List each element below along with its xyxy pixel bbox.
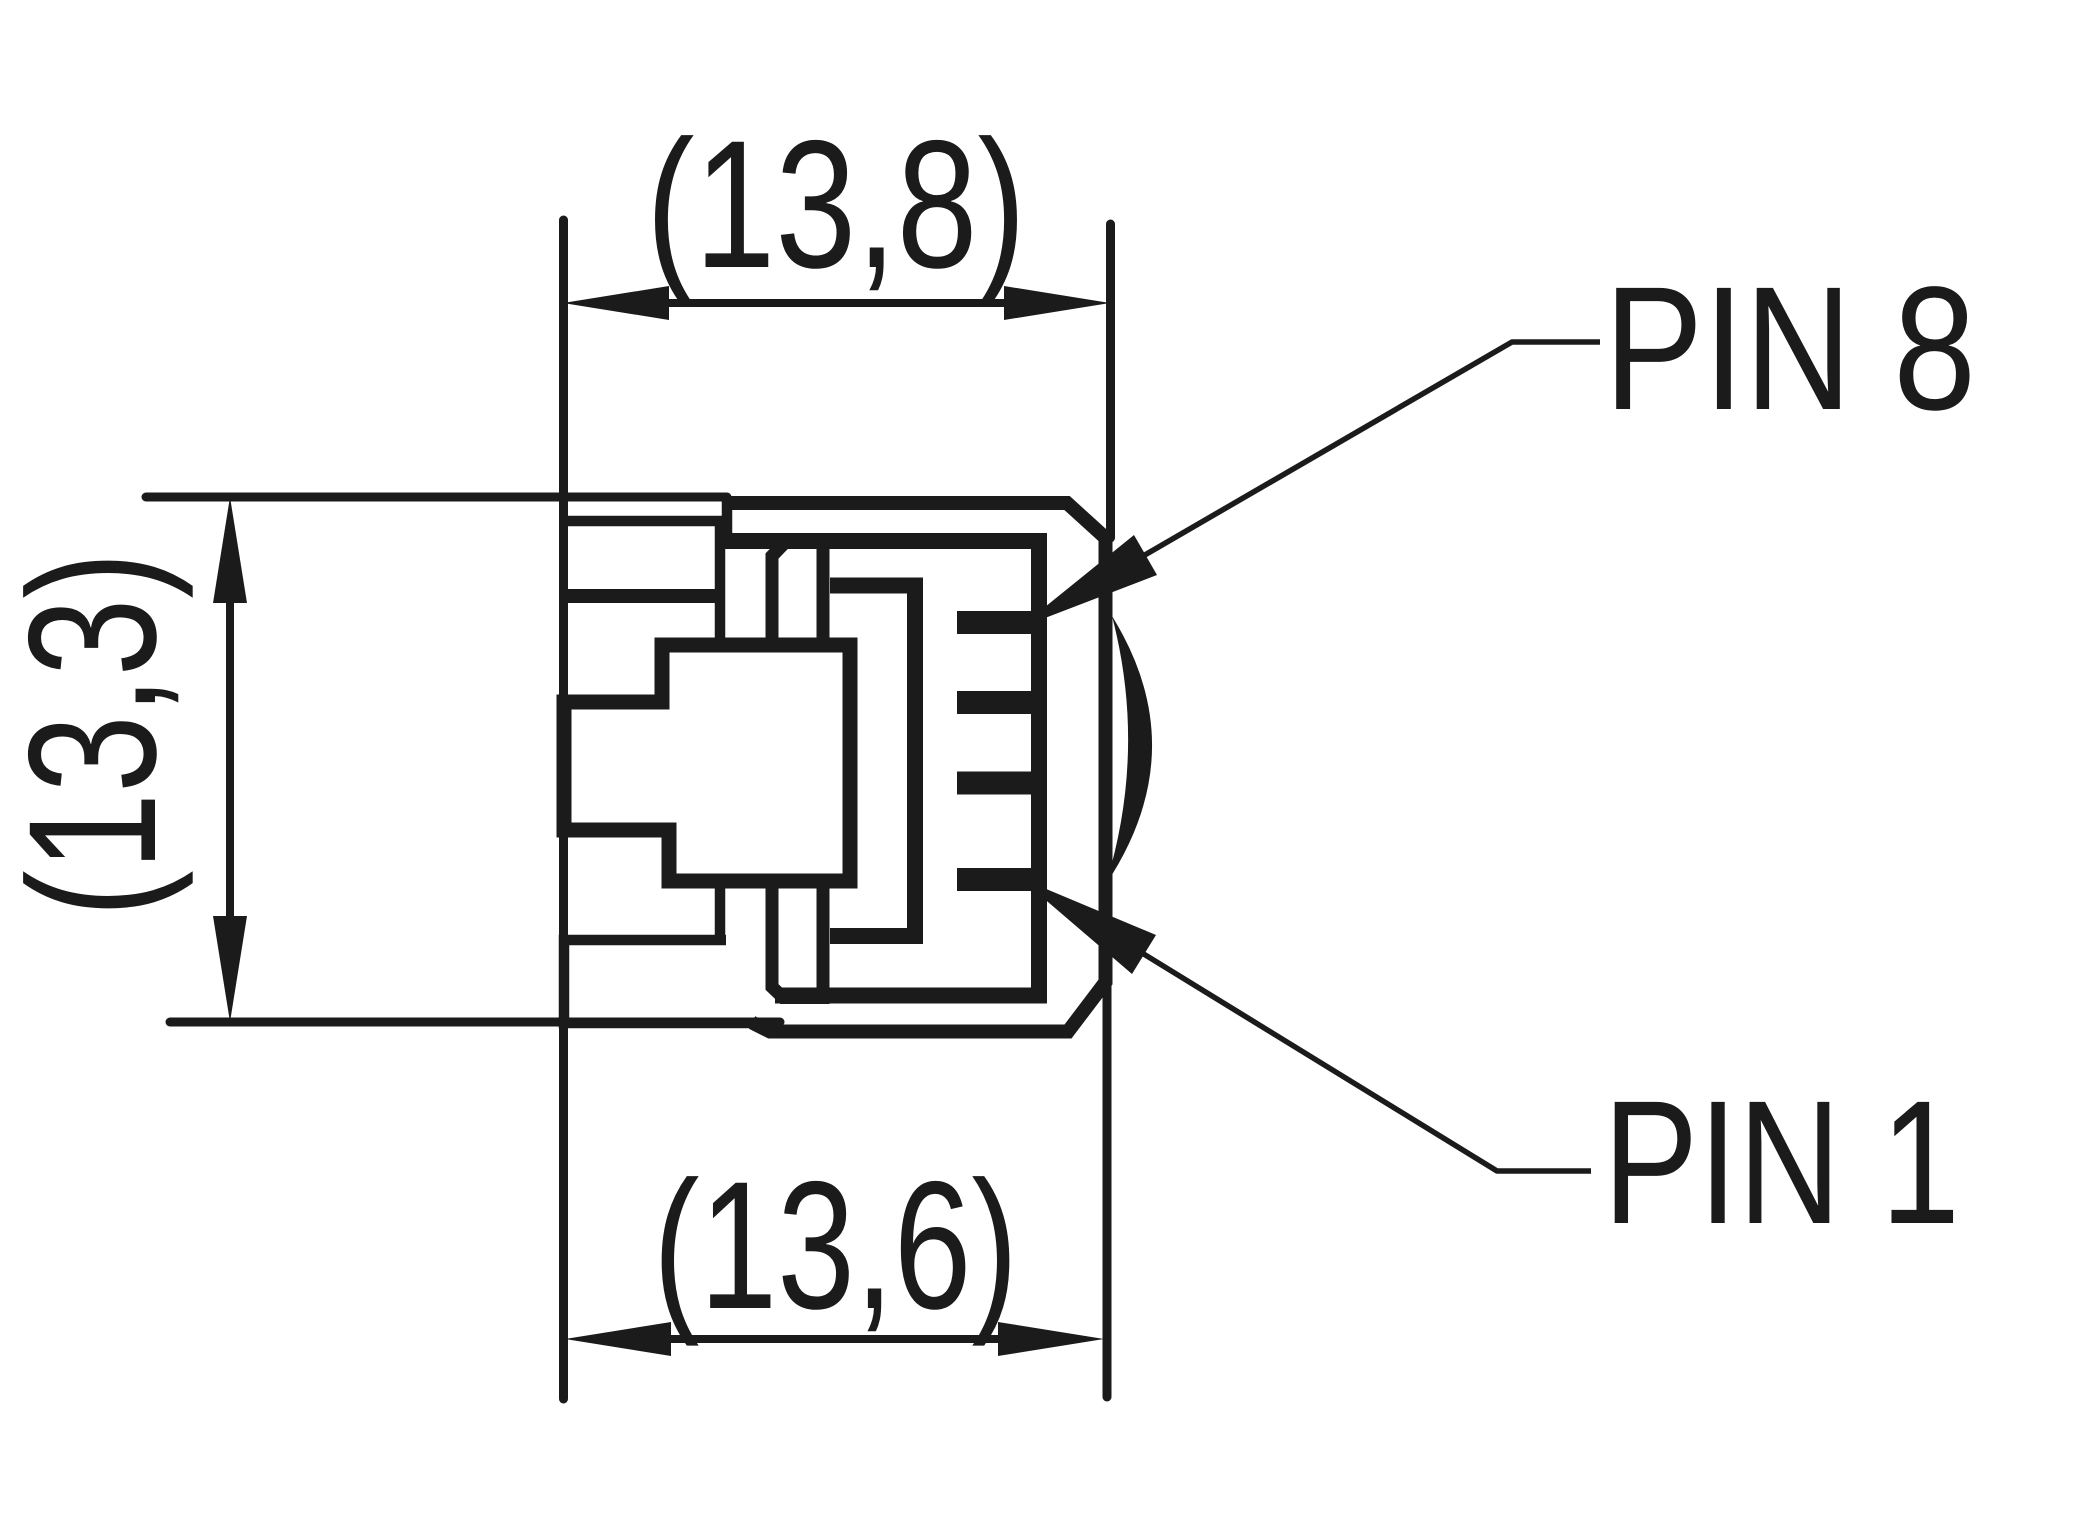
lower tab outline bbox=[772, 881, 823, 998]
dimension line (13,6) shaft bbox=[667, 1335, 1001, 1343]
upper ear outline bbox=[564, 521, 720, 645]
svg-text:PIN 8: PIN 8 bbox=[1604, 251, 1976, 447]
extension line left vertical bbox=[559, 220, 568, 1399]
inner frame right bar bbox=[1031, 541, 1047, 996]
leader arrowhead PIN 8 bbox=[1019, 535, 1157, 628]
extension line right vertical bottom bbox=[1103, 538, 1112, 1397]
pin stub 3 bbox=[957, 772, 1033, 795]
pin 1 stub bbox=[957, 868, 1033, 891]
svg-text:(13,3): (13,3) bbox=[0, 552, 194, 917]
connector body outline bbox=[727, 503, 1106, 1032]
upper tab outline bbox=[772, 542, 823, 646]
svg-text:(13,6): (13,6) bbox=[653, 1143, 1018, 1347]
extension line bottom horizontal bbox=[170, 1018, 780, 1027]
leader line PIN 1 bbox=[1020, 878, 1591, 1171]
lower ear outline bbox=[564, 940, 750, 1023]
dimension arrow (13,8) right bbox=[1004, 286, 1110, 320]
upper ear bottom edge bbox=[564, 589, 722, 603]
lower ear right step bbox=[715, 881, 726, 944]
leader line PIN 8 bbox=[1019, 342, 1600, 628]
pin stub 2 bbox=[957, 691, 1033, 714]
dimension arrow (13,6) right bbox=[998, 1322, 1104, 1356]
dimension arrow (13,3) bottom bbox=[213, 916, 247, 1022]
dimension arrow (13,8) left bbox=[563, 286, 669, 320]
dimension arrow (13,3) top bbox=[213, 497, 247, 603]
dimension arrow (13,6) left bbox=[565, 1322, 671, 1356]
pin 8 stub bbox=[957, 611, 1033, 634]
top edge left step bbox=[722, 498, 733, 545]
svg-text:(13,8): (13,8) bbox=[646, 102, 1026, 306]
inner frame top line bbox=[722, 533, 1047, 549]
inner frame bottom line bbox=[775, 988, 1047, 1004]
dimension line (13,8) shaft bbox=[665, 299, 1008, 307]
left notch box bbox=[564, 645, 850, 881]
extension line top horizontal bbox=[146, 493, 727, 502]
leader arrowhead PIN 1 bbox=[1020, 878, 1156, 974]
dimension line (13,3) shaft bbox=[226, 599, 234, 920]
inner opening outline bbox=[830, 586, 915, 937]
svg-text:PIN 1: PIN 1 bbox=[1603, 1065, 1960, 1261]
extension line right vertical top bbox=[1106, 224, 1115, 538]
latch bump crescent bbox=[1106, 616, 1152, 884]
